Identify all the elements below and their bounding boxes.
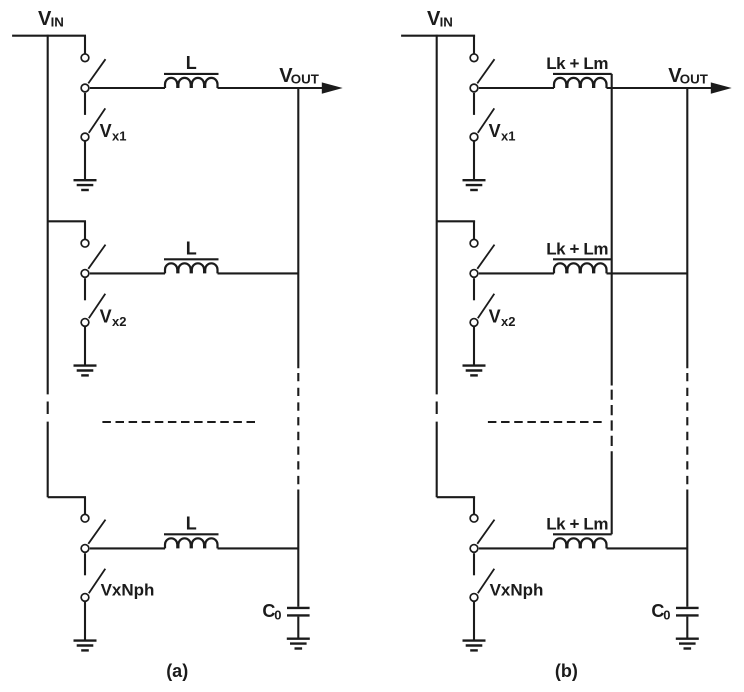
wire input bus lower segment (a) <box>47 422 49 498</box>
ground output capacitor (a) <box>287 639 310 649</box>
ground phase 2 (b) <box>463 366 486 376</box>
ground output capacitor (b) <box>676 639 699 649</box>
label Vx1 (b) <box>489 121 516 144</box>
inductor Lk+Lm bar (b) phase 1 <box>553 73 612 75</box>
label C_O (a) <box>262 601 281 623</box>
svg-text:V: V <box>489 121 501 141</box>
figure (b): multiphase buck with coupled inductors <box>401 8 732 681</box>
wire inductor to VOUT rail (a) phase 2 <box>218 272 299 274</box>
wire phase 3 switch drop (b) <box>473 497 475 514</box>
switch S1 low-side contact (a) <box>81 133 89 141</box>
wire magnetic coupling rail dashed continuation (b) <box>611 390 613 450</box>
wire VOUT rail upper (b) <box>686 88 688 368</box>
switch S1 low-side blade (b) <box>478 108 495 132</box>
wire phase 3 switch drop (a) <box>84 497 86 514</box>
switch S1 low-side contact (b) <box>470 133 478 141</box>
inductor Lk+Lm winding (b) phase 3 <box>554 538 607 548</box>
switch S3 high-side blade (a) <box>88 520 105 544</box>
svg-text:x2: x2 <box>501 314 515 329</box>
wire phase 1 switch drop (b) <box>473 36 475 54</box>
switch S1 high-side blade (b) <box>477 59 494 83</box>
svg-text:V: V <box>100 121 112 141</box>
svg-text:Lk + Lm: Lk + Lm <box>546 240 608 259</box>
node Vx2 switch-node contact (a) <box>81 270 89 278</box>
wire switch node to inductor (b) phase 1 <box>479 87 554 89</box>
svg-text:L: L <box>186 53 197 73</box>
svg-text:V: V <box>489 306 501 326</box>
svg-text:VxNph: VxNph <box>490 581 544 600</box>
switch S3 low-side blade (a) <box>89 569 106 594</box>
wire VOUT rail lower (a) <box>297 490 299 607</box>
wire switch node to inductor (b) phase 2 <box>479 272 554 274</box>
switch S3 low-side blade (b) <box>478 569 495 594</box>
ground phase 1 (a) <box>74 180 97 190</box>
label V_IN (a) <box>38 8 64 30</box>
figure (a): multiphase buck with discrete inductors <box>12 8 343 681</box>
wire phase 2 feed step (b) <box>437 220 475 222</box>
wire phase continuation dashed line (a) <box>102 421 255 423</box>
label C_O (b) <box>651 601 670 623</box>
svg-text:L: L <box>186 239 197 259</box>
svg-text:(b): (b) <box>555 661 578 681</box>
wire to ground (a) phase 2 <box>84 327 86 366</box>
node Vx1 switch-node contact (a) <box>81 84 89 92</box>
svg-text:Lk + Lm: Lk + Lm <box>546 515 608 534</box>
wire VOUT rail upper (a) <box>297 88 299 368</box>
wire switch node to inductor (a) phase 2 <box>90 272 165 274</box>
switch S3 low-side contact (b) <box>470 594 478 602</box>
switch S2 high-side blade (b) <box>477 245 494 269</box>
switch S3 high-side top contact (b) <box>470 514 478 522</box>
wire input bus lower segment (b) <box>436 422 438 498</box>
inductor L winding (a) phase 2 <box>165 263 218 273</box>
switch S2 low-side blade (b) <box>478 294 495 319</box>
wire inductor to VOUT rail (b) phase 2 <box>607 272 688 274</box>
wire to ground (a) phase 3 <box>84 602 86 641</box>
svg-text:x2: x2 <box>112 314 126 329</box>
node Vx3 switch-node contact (a) <box>81 545 89 553</box>
wire switch node to inductor (a) phase 3 <box>90 547 165 549</box>
node VIN input bus (b) : vertical rail upper <box>436 35 438 395</box>
switch S2 low-side contact (a) <box>81 319 89 327</box>
node VIN input bus (a) : vertical rail upper <box>47 35 49 395</box>
svg-text:IN: IN <box>51 15 64 30</box>
inductor L bar (a) phase 1 <box>164 73 219 75</box>
switch S2 high-side blade (a) <box>88 245 105 269</box>
wire phase 2 switch drop (a) <box>84 221 86 239</box>
wire low-side stub (a) phase 1 <box>84 93 86 115</box>
node Vx3 switch-node contact (b) <box>470 545 478 553</box>
switch S2 low-side contact (b) <box>470 319 478 327</box>
label Vx2 (b) <box>489 306 516 329</box>
ground phase 3 (b) <box>463 641 486 651</box>
switch S1 high-side top contact (a) <box>81 54 89 62</box>
wire inductor to VOUT rail (b) phase 3 <box>607 547 688 549</box>
wire phase 1 switch drop (a) <box>84 36 86 54</box>
wire to ground (a) phase 1 <box>84 142 86 181</box>
svg-text:x1: x1 <box>112 129 126 144</box>
switch S1 high-side blade (a) <box>88 59 105 83</box>
node Vx2 switch-node contact (b) <box>470 270 478 278</box>
switch S1 low-side blade (a) <box>89 108 106 132</box>
wire phase continuation dashed line (b) <box>488 421 605 423</box>
wire V_IN top rail (b) <box>401 35 475 37</box>
svg-text:x1: x1 <box>501 129 515 144</box>
capacitor C_O (a) <box>287 608 310 616</box>
svg-text:OUT: OUT <box>680 71 708 86</box>
wire input bus dashed continuation (a) <box>47 402 49 415</box>
node VOUT arrow (b) <box>711 82 732 93</box>
wire inductor to VOUT rail with arrow (b) phase 1 <box>607 87 717 89</box>
wire magnetic coupling rail lower (b) <box>611 451 613 534</box>
ground phase 1 (b) <box>463 180 486 190</box>
wire VOUT rail dashed continuation (b) <box>686 373 688 490</box>
ground phase 2 (a) <box>74 366 97 376</box>
svg-text:0: 0 <box>663 608 670 623</box>
svg-text:OUT: OUT <box>291 71 319 86</box>
wire low-side stub (b) phase 2 <box>473 278 475 300</box>
wire phase 2 feed step (a) <box>48 220 86 222</box>
switch S2 high-side top contact (b) <box>470 239 478 247</box>
wire to ground (b) phase 2 <box>473 327 475 366</box>
svg-text:VxNph: VxNph <box>101 581 155 600</box>
inductor L winding (a) phase 3 <box>165 538 218 548</box>
wire VOUT rail dashed continuation (a) <box>297 373 299 490</box>
inductor Lk+Lm bar (b) phase 3 <box>553 533 612 535</box>
ground phase 3 (a) <box>74 641 97 651</box>
wire phase 2 switch drop (b) <box>473 221 475 239</box>
wire capacitor to ground (b) <box>686 617 688 639</box>
switch S3 high-side blade (b) <box>477 520 494 544</box>
wire inductor to VOUT rail with arrow (a) phase 1 <box>218 87 328 89</box>
label V_IN (b) <box>427 8 453 30</box>
wire to ground (b) phase 1 <box>473 142 475 181</box>
svg-text:(a): (a) <box>166 661 188 681</box>
wire low-side stub (a) phase 2 <box>84 278 86 300</box>
wire inductor to VOUT rail (a) phase 3 <box>218 547 299 549</box>
wire phase 3 feed step (a) <box>48 496 86 498</box>
inductor L bar (a) phase 2 <box>164 258 219 260</box>
wire switch node to inductor (a) phase 1 <box>90 87 165 89</box>
label Vx1 (a) <box>100 121 127 144</box>
label Vx2 (a) <box>100 306 127 329</box>
wire magnetic coupling rail upper (b) <box>611 74 613 386</box>
inductor L winding (a) phase 1 <box>165 78 218 88</box>
inductor Lk+Lm winding (b) phase 1 <box>554 78 607 88</box>
switch S2 high-side top contact (a) <box>81 239 89 247</box>
svg-text:L: L <box>186 514 197 534</box>
wire low-side stub (b) phase 3 <box>473 553 475 575</box>
switch S1 high-side top contact (b) <box>470 54 478 62</box>
wire input bus dashed continuation (b) <box>436 402 438 415</box>
inductor Lk+Lm winding (b) phase 2 <box>554 263 607 273</box>
svg-text:Lk + Lm: Lk + Lm <box>546 54 608 73</box>
inductor Lk+Lm bar (b) phase 2 <box>553 258 612 260</box>
node VOUT arrow (a) <box>322 82 343 93</box>
wire low-side stub (b) phase 1 <box>473 93 475 115</box>
wire to ground (b) phase 3 <box>473 602 475 641</box>
inductor L bar (a) phase 3 <box>164 533 219 535</box>
wire capacitor to ground (a) <box>297 617 299 639</box>
svg-text:0: 0 <box>274 608 281 623</box>
switch S2 low-side blade (a) <box>89 294 106 319</box>
label V_OUT (a) <box>279 65 319 87</box>
wire switch node to inductor (b) phase 3 <box>479 547 554 549</box>
svg-text:V: V <box>100 306 112 326</box>
wire V_IN top rail (a) <box>12 35 86 37</box>
wire phase 3 feed step (b) <box>437 496 475 498</box>
node Vx1 switch-node contact (b) <box>470 84 478 92</box>
wire low-side stub (a) phase 3 <box>84 553 86 575</box>
switch S3 low-side contact (a) <box>81 594 89 602</box>
wire VOUT rail lower (b) <box>686 490 688 607</box>
label V_OUT (b) <box>668 65 708 87</box>
svg-text:IN: IN <box>440 15 453 30</box>
capacitor C_O (b) <box>676 608 699 616</box>
switch S3 high-side top contact (a) <box>81 514 89 522</box>
